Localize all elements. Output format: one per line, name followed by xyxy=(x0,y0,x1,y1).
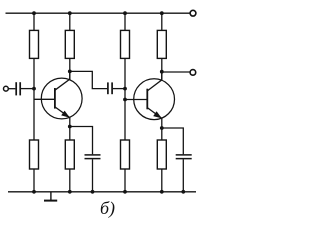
ground symbol xyxy=(44,192,57,201)
wire C1 to base node A xyxy=(21,88,34,90)
resistor R4 xyxy=(65,140,74,169)
transistor Q1 base bar xyxy=(54,88,56,109)
junction ground rail col A xyxy=(32,190,36,194)
wire R2 to collector node B xyxy=(69,58,71,79)
resistor R7 xyxy=(121,140,130,169)
transistor Q2 circle xyxy=(134,79,175,120)
resistor R6 xyxy=(157,30,166,58)
wire base branch Q1 xyxy=(34,98,55,100)
transistor Q2 emitter arrowhead xyxy=(153,111,162,118)
wire R4 to ground rail xyxy=(69,169,71,192)
junction top rail col B xyxy=(68,11,72,15)
wire R5 through node D to R7 xyxy=(124,58,126,140)
wire R1 to node A down to R3 xyxy=(33,58,35,140)
wire C3 to ground rail xyxy=(92,159,94,192)
wire Q2 emitter down to node G xyxy=(161,118,163,140)
junction ground rail col B xyxy=(68,190,72,194)
resistor R8 xyxy=(157,140,166,169)
transistor Q1 collector lead xyxy=(55,71,70,90)
junction ground rail C3 xyxy=(91,190,95,194)
wire top rail to R1 xyxy=(33,13,35,30)
transistor Q1 emitter arrowhead xyxy=(61,111,70,118)
wire R6 to collector node F xyxy=(161,58,163,80)
figure label б) xyxy=(100,198,115,219)
top rail +V bus xyxy=(6,12,190,14)
wire R8 to ground rail xyxy=(161,169,163,192)
junction top rail col E xyxy=(160,11,164,15)
capacitor C3 (emitter bypass stage 1) xyxy=(85,155,101,159)
wire top rail to R5 xyxy=(124,13,126,30)
transistor Q2 collector lead xyxy=(147,71,162,91)
wire top rail to R6 xyxy=(161,13,163,30)
wire base branch Q2 xyxy=(125,99,147,101)
wire top rail to R2 xyxy=(69,13,71,30)
transistor Q2 base bar xyxy=(146,89,148,110)
wire Q1 emitter down to node E xyxy=(69,117,71,140)
capacitor C2 xyxy=(108,82,112,94)
wire input terminal to C1 xyxy=(9,88,16,90)
wire C4 to ground rail xyxy=(182,159,184,192)
resistor R3 xyxy=(30,140,39,169)
bottom rail ground bus xyxy=(8,191,196,193)
junction collector node F xyxy=(160,70,164,74)
wire emitter node G to bypass C4 xyxy=(162,128,184,154)
junction ground rail C4 xyxy=(181,190,185,194)
capacitor C4 (emitter bypass stage 2) xyxy=(176,155,192,159)
wire collector node F to output terminal xyxy=(162,71,190,73)
junction node A (C1 to base line) xyxy=(32,87,36,91)
junction node D base branch xyxy=(123,98,127,102)
wire R3 to ground rail xyxy=(33,169,35,192)
output terminal xyxy=(190,70,196,76)
terminal +V (top right) xyxy=(190,10,196,16)
resistor R5 xyxy=(121,30,130,58)
wire C2 to stage2 base node D xyxy=(113,88,125,90)
input terminal xyxy=(4,86,9,91)
junction top rail col D xyxy=(123,11,127,15)
junction ground rail col E xyxy=(160,190,164,194)
junction node D (C2 out) xyxy=(123,87,127,91)
transistor Q2 emitter lead xyxy=(147,108,161,118)
junction ground rail col D xyxy=(123,190,127,194)
junction emitter node G xyxy=(160,126,164,130)
wire emitter node E to bypass C3 xyxy=(70,127,93,155)
resistor R1 xyxy=(30,30,39,58)
resistor R2 xyxy=(65,30,74,58)
wire R7 to ground rail xyxy=(124,169,126,192)
transistor Q1 circle xyxy=(41,78,82,119)
junction top rail col A xyxy=(32,11,36,15)
transistor Q1 emitter lead xyxy=(55,107,70,117)
junction collector node B xyxy=(68,70,72,74)
junction emitter node E xyxy=(68,125,72,129)
wire collector node B to C2 (staircase) xyxy=(70,71,107,88)
capacitor C1 xyxy=(16,82,20,95)
